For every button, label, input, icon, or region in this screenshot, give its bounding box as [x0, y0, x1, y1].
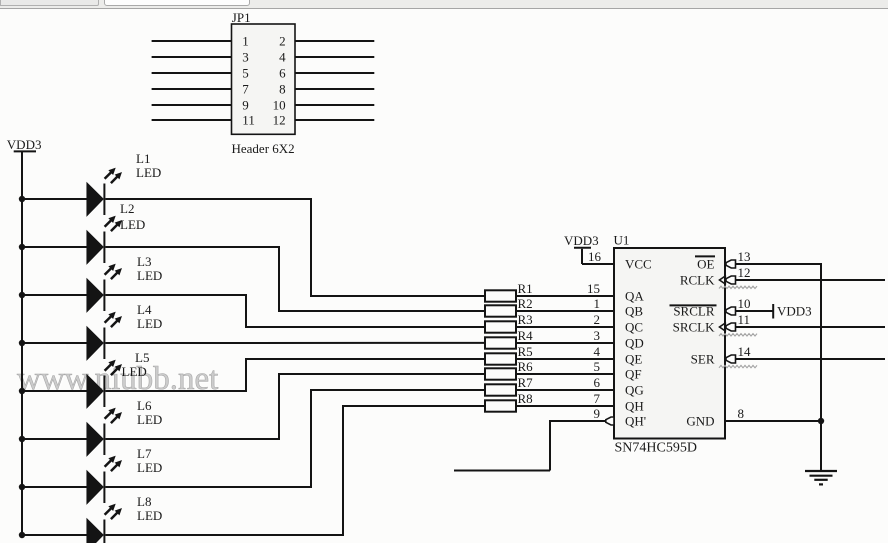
svg-text:VCC: VCC [625, 257, 652, 272]
pin number 7 [594, 391, 601, 406]
label R5 refdes [518, 344, 533, 359]
label L4 refdes [137, 302, 152, 317]
svg-text:13: 13 [738, 249, 751, 264]
pin number 7 [242, 82, 249, 97]
wire VDD3 drop [581, 249, 583, 264]
label L6 refdes [137, 398, 152, 413]
svg-text:R6: R6 [518, 359, 534, 374]
pin name RCLK [680, 273, 715, 288]
svg-text:R4: R4 [518, 328, 534, 343]
svg-text:L5: L5 [135, 350, 149, 365]
wire net L2 horizontal [105, 246, 279, 248]
wire pin 12 [736, 279, 886, 281]
wire net L6 vertical [278, 373, 280, 440]
svg-text:R3: R3 [518, 312, 533, 327]
wire JP1 pin 7 (left) [152, 88, 232, 90]
label L3 value LED [137, 268, 162, 283]
pin number 2 [279, 34, 286, 49]
squiggle under SRCLK [719, 334, 757, 336]
wire net R3 feed [246, 326, 485, 328]
svg-text:16: 16 [588, 249, 602, 264]
LED L7 triangle [87, 472, 103, 504]
svg-text:LED: LED [136, 165, 161, 180]
resistor R6 body [485, 368, 516, 379]
svg-text:R5: R5 [518, 344, 533, 359]
ground symbol [805, 471, 837, 484]
pin name SRCLK [673, 320, 716, 335]
wire L7 anode [22, 486, 87, 488]
wire R7 to U1 pin 6 [516, 389, 614, 391]
svg-text:6: 6 [279, 66, 286, 81]
pin name QG [625, 383, 644, 398]
wire net L8 horizontal [105, 534, 343, 536]
wire net L3 vertical [245, 294, 247, 328]
wire R6 to U1 pin 5 [516, 373, 614, 375]
svg-text:R1: R1 [518, 281, 533, 296]
pin number 10 [273, 98, 286, 113]
svg-text:5: 5 [242, 66, 249, 81]
toolbar strip (top, cut off) [0, 0, 888, 9]
LED L2 triangle [87, 232, 103, 264]
wire net R7 feed [311, 389, 485, 391]
pin number 5 [594, 359, 601, 374]
wire net L7 vertical [310, 389, 312, 488]
label L3 refdes [137, 254, 151, 269]
wire QH' horizontal [550, 420, 606, 422]
wire JP1 pin 1 (left) [152, 40, 232, 42]
svg-text:LED: LED [137, 268, 162, 283]
wire net R8 feed [343, 405, 485, 407]
label JP1 refdes [232, 10, 251, 25]
pin number 8 [279, 82, 286, 97]
LED L7 emission arrows [105, 456, 122, 471]
overline on OE [695, 255, 715, 257]
label R7 refdes [518, 375, 534, 390]
pin number 3 [242, 50, 249, 65]
label U1 part number SN74HC595D [615, 441, 697, 456]
pin number 8 [738, 406, 745, 421]
svg-text:7: 7 [242, 82, 249, 97]
toolbar text field (top, cut off) [104, 0, 250, 6]
LED L3 triangle [87, 280, 103, 312]
wire JP1 pin 12 (right) [295, 119, 374, 121]
pin name QD [625, 336, 644, 351]
LED L5 triangle [87, 376, 103, 408]
svg-text:6: 6 [594, 375, 601, 390]
svg-text:QB: QB [625, 304, 643, 319]
svg-text:SER: SER [691, 352, 715, 367]
svg-text:SRCLK: SRCLK [673, 320, 716, 335]
wire L2 anode [22, 246, 87, 248]
junction node on VDD3 bus (L5 row) [19, 388, 25, 394]
squiggle under RCLK [719, 286, 757, 288]
resistor R3 body [485, 321, 516, 332]
wire net L6 horizontal [105, 438, 279, 440]
wire net L5 horizontal [105, 390, 246, 392]
pin number 6 [279, 66, 286, 81]
wire pin 14 [736, 358, 886, 360]
label R2 refdes [518, 296, 533, 311]
svg-text:10: 10 [738, 296, 751, 311]
LED L1 triangle [87, 184, 103, 216]
pin number 11 [242, 113, 255, 128]
power VDD3 (U1) label [564, 233, 599, 248]
pin number 15 [587, 281, 600, 296]
svg-text:U1: U1 [614, 233, 630, 248]
pin number 1 [594, 296, 601, 311]
label L8 refdes [137, 494, 151, 509]
LED L7 cathode bar [103, 472, 105, 504]
wire L6 anode [22, 438, 87, 440]
wire net L8 vertical [342, 405, 344, 536]
wire QH' stub end [454, 470, 550, 472]
wire JP1 pin 11 (left) [152, 119, 232, 121]
resistor R2 body [485, 305, 516, 316]
svg-text:12: 12 [273, 113, 286, 128]
label R4 refdes [518, 328, 534, 343]
wire net R5 feed [246, 358, 485, 360]
label L4 value LED [137, 316, 162, 331]
pin number 12 [738, 265, 751, 280]
power VDD3 (left) label [7, 137, 42, 152]
wire L8 anode [22, 534, 87, 536]
resistor R1 body [485, 290, 516, 301]
pin number 4 [279, 50, 286, 65]
svg-text:12: 12 [738, 265, 751, 280]
LED L6 cathode bar [103, 424, 105, 456]
watermark www.niubb.net [17, 361, 220, 399]
svg-text:9: 9 [594, 406, 601, 421]
LED L5 emission arrows [105, 360, 122, 375]
svg-text:Header 6X2: Header 6X2 [232, 141, 295, 156]
junction node on VDD3 bus (L7 row) [19, 484, 25, 490]
wire net L2 vertical [278, 246, 280, 312]
wire net R1 feed [311, 295, 485, 297]
junction node on VDD3 bus (L4 row) [19, 340, 25, 346]
pin name QC [625, 320, 643, 335]
pin name QB [625, 304, 643, 319]
wire net R6 feed [279, 373, 485, 375]
label L7 refdes [137, 446, 152, 461]
wire net L3 horizontal [105, 294, 246, 296]
LED L2 cathode bar [103, 232, 105, 264]
LED L3 cathode bar [103, 280, 105, 312]
svg-text:R7: R7 [518, 375, 534, 390]
svg-text:8: 8 [738, 406, 745, 421]
LED L6 emission arrows [105, 408, 122, 423]
wire net L5 vertical [245, 358, 247, 392]
pin name QH [625, 399, 644, 414]
overline on SRCLR [670, 304, 717, 306]
svg-text:SN74HC595D: SN74HC595D [615, 441, 697, 456]
op IC U1 body [614, 248, 725, 439]
svg-text:L4: L4 [137, 302, 152, 317]
wire R2 to U1 pin 1 [516, 310, 614, 312]
label L7 value LED [137, 460, 162, 475]
label R6 refdes [518, 359, 534, 374]
LED L4 emission arrows [105, 312, 122, 327]
svg-text:R8: R8 [518, 391, 533, 406]
svg-text:VDD3: VDD3 [777, 304, 812, 319]
wire net L1 vertical [310, 198, 312, 297]
label R8 refdes [518, 391, 533, 406]
svg-text:8: 8 [279, 82, 286, 97]
svg-text:R2: R2 [518, 296, 533, 311]
svg-text:QE: QE [625, 352, 642, 367]
wire JP1 pin 10 (right) [295, 104, 374, 106]
LED L1 emission arrows [105, 168, 122, 183]
junction node on VDD3 bus (L6 row) [19, 436, 25, 442]
svg-text:L6: L6 [137, 398, 152, 413]
svg-text:1: 1 [594, 296, 601, 311]
label U1 refdes [614, 233, 630, 248]
svg-text:2: 2 [594, 312, 601, 327]
pin arrow 9 (QH') [606, 417, 614, 425]
label L1 value LED [136, 165, 161, 180]
resistor R5 body [485, 353, 516, 364]
wire R3 to U1 pin 2 [516, 326, 614, 328]
svg-text:JP1: JP1 [232, 10, 251, 25]
svg-text:11: 11 [242, 113, 255, 128]
svg-text:LED: LED [122, 364, 147, 379]
LED L4 cathode bar [103, 328, 105, 360]
label R3 refdes [518, 312, 533, 327]
wire pin 10 [736, 310, 773, 312]
junction node on VDD3 bus (L2 row) [19, 244, 25, 250]
svg-text:QH': QH' [625, 414, 646, 429]
pin name QH' [625, 414, 646, 429]
svg-text:10: 10 [273, 98, 286, 113]
wire GND pin 8 [725, 420, 822, 422]
svg-text:QA: QA [625, 289, 644, 304]
resistor R7 body [485, 384, 516, 395]
junction node on VDD3 bus (L1 row) [19, 196, 25, 202]
svg-text:L2: L2 [120, 201, 134, 216]
svg-text:QC: QC [625, 320, 643, 335]
label L5 value LED [122, 364, 147, 379]
wire QH' vertical [549, 420, 551, 471]
LED L6 triangle [87, 424, 103, 456]
svg-text:2: 2 [279, 34, 286, 49]
wire pin 11 [736, 326, 886, 328]
pin name QA [625, 289, 644, 304]
power VDD3 (left) bar [14, 150, 36, 152]
wire L3 anode [22, 294, 87, 296]
wire ground bus vertical [820, 263, 822, 470]
pin number 16 [588, 249, 602, 264]
pin arrow 14 (SER) [726, 355, 736, 363]
pin arrow 12 (RCLK) [726, 276, 736, 284]
svg-text:L1: L1 [136, 151, 150, 166]
svg-text:4: 4 [279, 50, 286, 65]
LED L8 triangle [87, 520, 103, 543]
svg-text:7: 7 [594, 391, 601, 406]
pin arrow 13 (OE) [726, 260, 736, 268]
svg-text:VDD3: VDD3 [7, 137, 42, 152]
wire pin 13 [736, 263, 823, 265]
power VDD3 (SRCLR) bar [772, 304, 774, 319]
power VDD3 (SRCLR) label [777, 304, 812, 319]
junction node GND bus [818, 418, 824, 424]
svg-text:3: 3 [242, 50, 249, 65]
pin name SRCLR [673, 304, 715, 319]
svg-text:5: 5 [594, 359, 601, 374]
label L5 refdes [135, 350, 149, 365]
svg-text:L7: L7 [137, 446, 152, 461]
pin number 9 [242, 98, 249, 113]
pin number 4 [594, 344, 601, 359]
wire to VCC pin 16 [582, 263, 614, 265]
wire R8 to U1 pin 7 [516, 405, 614, 407]
svg-text:QF: QF [625, 367, 642, 382]
toolbar button (top-left, cut off) [0, 0, 99, 6]
svg-text:9: 9 [242, 98, 249, 113]
svg-text:LED: LED [137, 316, 162, 331]
pin number 6 [594, 375, 601, 390]
pin arrow 10 (SRCLR) [726, 307, 736, 315]
svg-text:GND: GND [686, 414, 714, 429]
LED L8 emission arrows [105, 504, 122, 519]
svg-text:LED: LED [137, 508, 162, 523]
label Header 6X2 value [232, 141, 295, 156]
pin arrow 11 (SRCLK) [726, 323, 736, 331]
svg-text:11: 11 [738, 312, 751, 327]
svg-text:LED: LED [137, 460, 162, 475]
pin number 12 [273, 113, 286, 128]
svg-text:4: 4 [594, 344, 601, 359]
wire JP1 pin 2 (right) [295, 40, 374, 42]
svg-text:OE: OE [697, 257, 714, 272]
wire net L4-R4 (straight) [105, 342, 485, 344]
label L1 refdes [136, 151, 150, 166]
wire JP1 pin 9 (left) [152, 104, 232, 106]
label R1 refdes [518, 281, 533, 296]
wire R4 to U1 pin 3 [516, 342, 614, 344]
pin name OE [697, 257, 714, 272]
label L8 value LED [137, 508, 162, 523]
wire JP1 pin 6 (right) [295, 72, 374, 74]
svg-text:VDD3: VDD3 [564, 233, 599, 248]
pin name VCC [625, 257, 652, 272]
wire JP1 pin 3 (left) [152, 56, 232, 58]
pin number 2 [594, 312, 601, 327]
svg-text:LED: LED [120, 217, 145, 232]
svg-text:15: 15 [587, 281, 600, 296]
pin name QF [625, 367, 642, 382]
power VDD3 (U1) bar [574, 247, 591, 249]
svg-text:QG: QG [625, 383, 644, 398]
pin number 3 [594, 328, 601, 343]
LED L2 emission arrows [105, 216, 122, 231]
svg-text:14: 14 [738, 344, 752, 359]
wire net L1 horizontal [105, 198, 311, 200]
resistor R4 body [485, 337, 516, 348]
pin name GND [686, 414, 714, 429]
svg-text:LED: LED [137, 412, 162, 427]
label L2 value LED [120, 217, 145, 232]
clock chevron RCLK [720, 276, 727, 285]
pin number 10 [738, 296, 751, 311]
LED L1 cathode bar [103, 184, 105, 216]
squiggle under SER [719, 365, 757, 367]
wire JP1 pin 4 (right) [295, 56, 374, 58]
connector JP1 body [232, 24, 296, 134]
wire VDD3 bus (vertical) [21, 151, 23, 536]
resistor R8 body [485, 400, 516, 411]
LED L3 emission arrows [105, 264, 122, 279]
pin number 13 [738, 249, 751, 264]
wire L1 anode [22, 198, 87, 200]
pin number 11 [738, 312, 751, 327]
wire JP1 pin 8 (right) [295, 88, 374, 90]
svg-text:L3: L3 [137, 254, 151, 269]
wire L5 anode [22, 390, 87, 392]
svg-text:QD: QD [625, 336, 644, 351]
label L2 refdes [120, 201, 134, 216]
pin number 1 [242, 34, 249, 49]
wire R5 to U1 pin 4 [516, 358, 614, 360]
clock chevron SRCLK [720, 323, 727, 332]
wire R1 to U1 pin 15 [516, 295, 614, 297]
LED L4 triangle [87, 328, 103, 360]
LED L8 cathode bar [103, 520, 105, 543]
pin name QE [625, 352, 642, 367]
LED L5 cathode bar [103, 376, 105, 408]
wire net L7 horizontal [105, 486, 311, 488]
wire JP1 pin 5 (left) [152, 72, 232, 74]
wire L4 anode [22, 342, 87, 344]
pin number 5 [242, 66, 249, 81]
junction node on VDD3 bus (L3 row) [19, 292, 25, 298]
pin name SER [691, 352, 715, 367]
pin number 14 [738, 344, 752, 359]
svg-text:3: 3 [594, 328, 601, 343]
label L6 value LED [137, 412, 162, 427]
svg-text:QH: QH [625, 399, 644, 414]
pin number 9 [594, 406, 601, 421]
wire net R2 feed [279, 310, 485, 312]
junction node on VDD3 bus (L8 row) [19, 532, 25, 538]
svg-text:L8: L8 [137, 494, 151, 509]
svg-text:1: 1 [242, 34, 249, 49]
svg-text:RCLK: RCLK [680, 273, 715, 288]
